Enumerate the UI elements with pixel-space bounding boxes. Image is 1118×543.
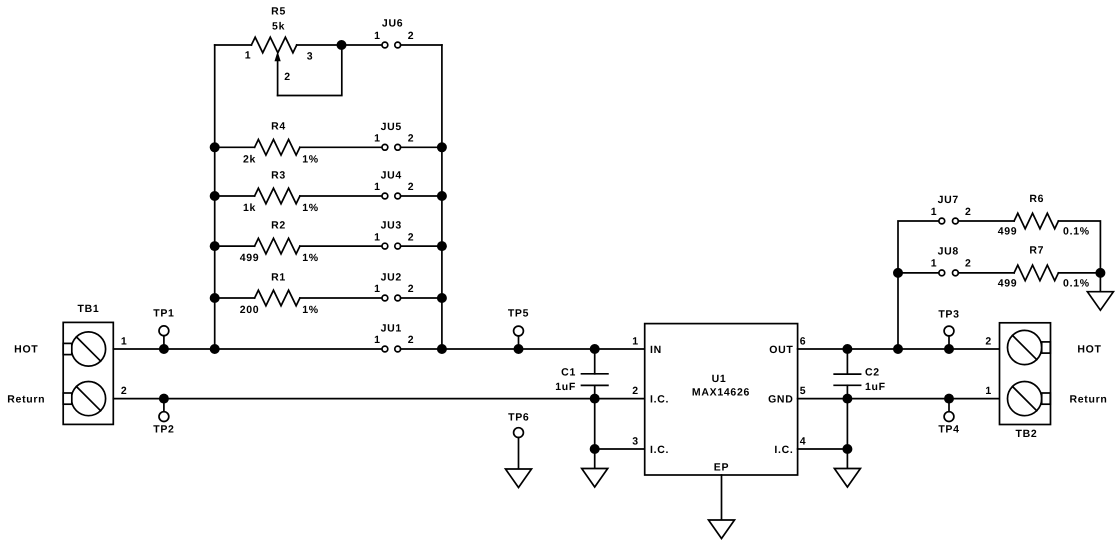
svg-text:499: 499 <box>240 252 260 264</box>
test point TP3 <box>938 309 959 350</box>
wire node to U1 pin3 <box>595 448 645 450</box>
svg-text:TP5: TP5 <box>508 308 529 320</box>
svg-text:1: 1 <box>374 30 381 42</box>
pin 6 of U1 <box>800 336 807 348</box>
pin 1 of TB1 <box>121 336 128 348</box>
label TB2 <box>1016 428 1038 440</box>
junction TP1 <box>159 344 169 354</box>
jumper JU3 <box>374 220 414 249</box>
wire JU7 pin2 to R6 <box>958 220 1014 222</box>
svg-text:U1: U1 <box>712 373 727 385</box>
resistor R7 <box>998 245 1090 290</box>
pin 1 of U1 <box>632 336 639 348</box>
svg-text:3: 3 <box>307 50 314 62</box>
svg-text:TP4: TP4 <box>938 424 959 436</box>
junction TP3 <box>944 344 954 354</box>
ground <box>1087 292 1113 311</box>
svg-text:1: 1 <box>931 206 938 218</box>
svg-text:TP1: TP1 <box>153 308 174 320</box>
svg-text:Return: Return <box>7 393 45 405</box>
svg-text:2k: 2k <box>243 153 256 165</box>
svg-text:HOT: HOT <box>1077 343 1101 355</box>
svg-text:1uF: 1uF <box>865 381 886 393</box>
svg-text:1uF: 1uF <box>555 381 576 393</box>
junction JU8 tap <box>893 268 903 278</box>
jumper JU7 <box>931 194 972 224</box>
test point TP1 <box>153 308 174 350</box>
resistor R2 <box>240 220 319 265</box>
svg-text:1: 1 <box>985 385 992 397</box>
ground <box>582 469 608 488</box>
svg-text:R3: R3 <box>271 169 286 181</box>
junction C1 bottom <box>590 394 600 404</box>
wire rail to R2 <box>215 245 255 247</box>
svg-text:1%: 1% <box>302 202 319 214</box>
junction JU node on OUT <box>893 344 903 354</box>
junction R5 wiper <box>337 40 347 50</box>
svg-text:R5: R5 <box>271 5 286 17</box>
svg-text:499: 499 <box>998 225 1018 237</box>
pin 2 of U1 <box>632 385 639 397</box>
svg-text:MAX14626: MAX14626 <box>692 387 750 399</box>
junction left rail / HOT <box>210 344 220 354</box>
wire R1 to JU2 pin1 <box>300 297 382 299</box>
jumper JU8 <box>931 246 972 276</box>
pin 2 of TB2 <box>985 336 992 348</box>
label TB1 <box>78 303 100 315</box>
svg-text:R4: R4 <box>271 121 286 133</box>
svg-text:R1: R1 <box>271 271 286 283</box>
jumper JU6 <box>374 17 414 48</box>
test point TP2 <box>153 399 174 436</box>
ground <box>506 469 532 488</box>
jumper JU4 <box>374 170 414 199</box>
svg-text:TP2: TP2 <box>153 424 174 436</box>
svg-text:JU2: JU2 <box>381 272 402 284</box>
svg-text:TB1: TB1 <box>78 303 100 315</box>
junction C2 bottom <box>842 394 852 404</box>
pin 5 of U1 <box>800 385 807 397</box>
svg-text:I.C.: I.C. <box>774 444 793 456</box>
svg-text:2: 2 <box>985 336 992 348</box>
svg-text:2: 2 <box>632 385 639 397</box>
jumper JU1 <box>374 323 414 352</box>
pin 1 of TB2 <box>985 385 992 397</box>
junction TP5 <box>514 344 524 354</box>
junction C2 top <box>842 344 852 354</box>
svg-text:TP3: TP3 <box>938 309 959 321</box>
svg-text:IN: IN <box>650 344 662 356</box>
svg-text:5: 5 <box>800 385 807 397</box>
svg-text:TB2: TB2 <box>1016 428 1038 440</box>
svg-text:JU3: JU3 <box>381 220 402 232</box>
junction left rail R2 <box>210 241 220 251</box>
IC U1 MAX14626 <box>645 324 798 475</box>
wire rail to R5 pin1 <box>215 44 252 46</box>
wire U1 GND to TB2 pin1 <box>798 398 1000 400</box>
svg-text:1%: 1% <box>302 304 319 316</box>
svg-text:1: 1 <box>374 283 381 295</box>
wire node to JU8 pin1 <box>898 272 939 274</box>
svg-text:1: 1 <box>632 336 639 348</box>
svg-text:R6: R6 <box>1029 193 1044 205</box>
wire JU4 pin2 to rail <box>401 195 442 197</box>
wire node to U1 pin4 <box>798 448 848 450</box>
svg-text:200: 200 <box>240 304 260 316</box>
wire rail to R3 <box>215 195 255 197</box>
junction C1 top <box>590 344 600 354</box>
wire U1 OUT to TB2 pin2 <box>798 348 1000 350</box>
wire JU6 pin2 to rail <box>401 44 442 46</box>
wire C2 to ground node <box>846 399 848 468</box>
capacitor C1 <box>555 349 608 399</box>
junction right rail R3 <box>437 191 447 201</box>
wire R6 to right rail <box>1058 221 1100 273</box>
svg-text:2: 2 <box>408 133 415 145</box>
svg-text:R7: R7 <box>1029 245 1044 257</box>
ground <box>709 520 735 539</box>
wire junction to ground <box>1099 273 1101 291</box>
junction right rail R4 <box>437 142 447 152</box>
svg-text:1: 1 <box>374 231 381 243</box>
svg-text:3: 3 <box>632 436 639 448</box>
svg-text:JU7: JU7 <box>938 194 959 206</box>
junction right rail R2 <box>437 241 447 251</box>
label Return (right) <box>1069 393 1107 405</box>
svg-text:1: 1 <box>374 181 381 193</box>
svg-text:2: 2 <box>408 334 415 346</box>
svg-text:C1: C1 <box>561 366 576 378</box>
test point TP5 <box>508 308 529 350</box>
svg-text:HOT: HOT <box>14 344 38 356</box>
wire right rail <box>441 45 443 349</box>
svg-text:GND: GND <box>768 393 793 405</box>
junction TP2 <box>159 394 169 404</box>
junction left rail R4 <box>210 142 220 152</box>
svg-text:1: 1 <box>121 336 128 348</box>
svg-text:499: 499 <box>998 277 1018 289</box>
junction right rail R1 <box>437 293 447 303</box>
svg-text:4: 4 <box>800 436 807 448</box>
test point TP6 <box>508 411 529 468</box>
svg-text:0.1%: 0.1% <box>1063 225 1090 237</box>
svg-text:5k: 5k <box>272 21 285 33</box>
ground <box>834 469 860 488</box>
junction pin4 node <box>842 444 852 454</box>
svg-text:JU6: JU6 <box>382 17 403 29</box>
jumper JU5 <box>374 121 414 150</box>
wire OUT to JU7/JU8 node <box>898 221 939 349</box>
svg-text:1: 1 <box>374 334 381 346</box>
wire rail to R1 <box>215 297 255 299</box>
svg-text:C2: C2 <box>865 366 880 378</box>
capacitor C2 <box>834 349 886 399</box>
svg-text:1k: 1k <box>243 202 256 214</box>
svg-text:I.C.: I.C. <box>650 444 669 456</box>
svg-text:1%: 1% <box>302 153 319 165</box>
test point TP4 <box>938 399 959 436</box>
resistor R6 <box>998 193 1090 237</box>
svg-text:JU8: JU8 <box>938 246 959 258</box>
svg-text:R2: R2 <box>271 220 286 232</box>
label HOT (left) <box>14 344 38 356</box>
svg-text:JU5: JU5 <box>381 121 402 133</box>
svg-text:2: 2 <box>965 258 972 270</box>
resistor R4 <box>243 121 319 166</box>
wire R3 to JU4 pin1 <box>300 195 382 197</box>
svg-text:2: 2 <box>965 206 972 218</box>
svg-text:1: 1 <box>374 133 381 145</box>
pin 2 of TB1 <box>121 385 128 397</box>
wire R5 pin3 to JU6 pin1 <box>297 44 382 46</box>
junction right rail / HOT <box>437 344 447 354</box>
wire TB1 pin1 to JU1 pin1 <box>113 348 382 350</box>
svg-text:EP: EP <box>714 461 729 473</box>
terminal block TB2 <box>1000 323 1051 425</box>
svg-text:2: 2 <box>408 283 415 295</box>
svg-text:6: 6 <box>800 336 807 348</box>
wire EP to ground <box>721 475 723 519</box>
wire JU2 pin2 to rail <box>401 297 442 299</box>
wire left rail <box>214 45 216 349</box>
wire JU3 pin2 to rail <box>401 245 442 247</box>
svg-text:I.C.: I.C. <box>650 393 669 405</box>
pin 4 of U1 <box>800 436 807 448</box>
potentiometer R5 <box>245 5 314 95</box>
svg-text:1%: 1% <box>302 252 319 264</box>
svg-text:2: 2 <box>408 181 415 193</box>
pin 3 of U1 <box>632 436 639 448</box>
svg-text:JU1: JU1 <box>381 323 402 335</box>
wire R7 to right rail <box>1058 272 1100 274</box>
wire JU1 pin2 to U1 IN <box>401 348 645 350</box>
jumper JU2 <box>374 272 414 301</box>
label HOT (right) <box>1077 343 1101 355</box>
svg-text:Return: Return <box>1069 393 1107 405</box>
wire R5 wiper loop <box>278 45 342 96</box>
terminal block TB1 <box>63 322 113 424</box>
svg-text:2: 2 <box>408 30 415 42</box>
svg-text:1: 1 <box>245 50 252 62</box>
junction TP4 <box>944 394 954 404</box>
svg-text:2: 2 <box>121 385 128 397</box>
junction left rail R1 <box>210 293 220 303</box>
resistor R1 <box>240 271 319 316</box>
svg-text:1: 1 <box>931 258 938 270</box>
resistor R3 <box>243 169 319 214</box>
junction R6/R7 <box>1095 268 1105 278</box>
label Return (left) <box>7 393 45 405</box>
junction pin3 node <box>590 444 600 454</box>
wire TB1 pin2 to U1 I.C. pin2 <box>113 398 644 400</box>
wire R4 to JU5 pin1 <box>300 146 382 148</box>
svg-text:0.1%: 0.1% <box>1063 277 1090 289</box>
svg-text:TP6: TP6 <box>508 411 529 423</box>
wire rail to R4 <box>215 146 255 148</box>
wire R2 to JU3 pin1 <box>300 245 382 247</box>
svg-text:2: 2 <box>408 231 415 243</box>
wire JU5 pin2 to rail <box>401 146 442 148</box>
wire C1 to ground node <box>594 399 596 468</box>
svg-text:OUT: OUT <box>769 344 793 356</box>
svg-text:JU4: JU4 <box>381 170 402 182</box>
wire JU8 pin2 to R7 <box>958 272 1014 274</box>
junction left rail R3 <box>210 191 220 201</box>
svg-text:2: 2 <box>284 71 291 83</box>
